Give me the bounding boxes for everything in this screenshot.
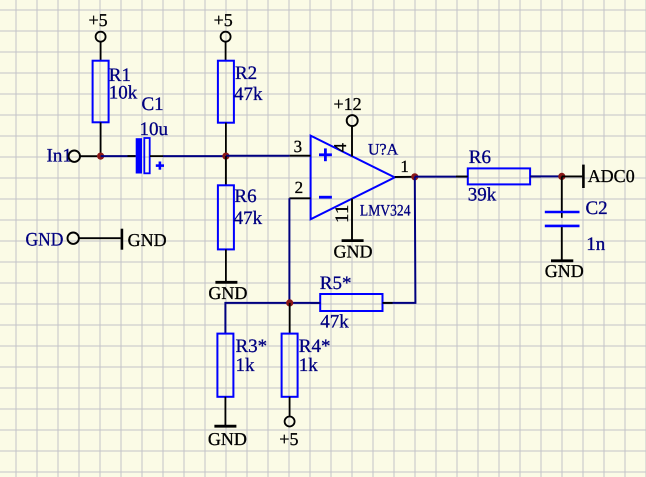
resistor R3* xyxy=(217,334,233,426)
capacitor C1 10u xyxy=(128,138,165,174)
svg-text:ADC0: ADC0 xyxy=(588,166,635,186)
svg-text:1: 1 xyxy=(400,157,409,176)
svg-text:R2: R2 xyxy=(235,63,257,84)
power +5 (R4 supply) xyxy=(279,417,298,449)
junction (output node) xyxy=(411,173,418,180)
resistor R6 (47k) xyxy=(218,156,234,281)
wire (C1 to R2 node) xyxy=(163,155,226,157)
power +5 (R1 supply) xyxy=(89,10,108,61)
pin 3 (non-inverting) xyxy=(290,137,311,156)
junction (ADC node) xyxy=(558,173,565,180)
svg-text:1k: 1k xyxy=(299,355,319,376)
svg-text:GND: GND xyxy=(208,283,247,303)
pin 2 (inverting) xyxy=(289,178,310,199)
svg-text:+5: +5 xyxy=(89,10,108,30)
wire (pin 2 to inverting node) xyxy=(288,198,290,303)
resistor R5* xyxy=(310,294,392,311)
power GND (bar, left) xyxy=(122,229,167,250)
svg-text:GND: GND xyxy=(26,230,64,251)
ground (under C2) xyxy=(545,261,584,281)
wire (node to C1) xyxy=(101,155,136,157)
wire (R6 to ADC node) xyxy=(530,175,562,177)
resistor R6 (39k) xyxy=(456,168,541,184)
svg-text:GND: GND xyxy=(545,261,584,281)
resistor R4* xyxy=(282,303,298,416)
svg-text:C1: C1 xyxy=(142,94,164,115)
pin 11 (V-) xyxy=(332,199,353,240)
svg-text:11: 11 xyxy=(332,205,353,223)
svg-text:C2: C2 xyxy=(586,198,608,219)
svg-text:47k: 47k xyxy=(234,208,263,229)
port GND circle xyxy=(68,233,121,244)
svg-text:10k: 10k xyxy=(109,83,138,104)
op-amp U?A LMV324 xyxy=(311,136,395,220)
port In1 xyxy=(47,146,98,167)
svg-text:GND: GND xyxy=(128,230,167,250)
wire (R5 to inverting node and R3) xyxy=(225,303,320,334)
svg-text:1k: 1k xyxy=(236,355,256,376)
junction (R2/C1/R6) xyxy=(222,153,229,160)
svg-text:10u: 10u xyxy=(140,119,169,140)
svg-text:3: 3 xyxy=(294,137,303,156)
resistor R1 xyxy=(93,61,109,156)
svg-text:2: 2 xyxy=(295,178,304,197)
svg-text:+5: +5 xyxy=(214,10,233,30)
svg-text:U?A: U?A xyxy=(368,142,399,159)
svg-text:4: 4 xyxy=(330,143,350,152)
pin 4 (V+) xyxy=(330,126,352,156)
power +12 xyxy=(334,94,362,126)
svg-text:1n: 1n xyxy=(586,234,606,255)
capacitor C2 1n xyxy=(545,176,580,259)
svg-text:GND: GND xyxy=(208,429,247,449)
wire (feedback: output down to R5) xyxy=(383,177,416,303)
svg-text:+12: +12 xyxy=(334,94,362,114)
resistor R2 xyxy=(218,61,234,156)
svg-text:47k: 47k xyxy=(320,311,349,332)
junction (inverting node) xyxy=(286,299,293,306)
ground (op-amp V-) xyxy=(334,241,373,262)
svg-text:39k: 39k xyxy=(468,185,497,206)
svg-text:R6: R6 xyxy=(234,186,256,207)
svg-text:GND: GND xyxy=(334,241,373,261)
svg-text:R5*: R5* xyxy=(320,273,352,294)
svg-text:47k: 47k xyxy=(234,84,263,105)
svg-text:R6: R6 xyxy=(469,147,491,168)
ground (under R3*) xyxy=(208,426,247,449)
svg-text:LMV324: LMV324 xyxy=(360,202,411,219)
wire (output to R6 39k) xyxy=(415,176,468,178)
ground (under R6) xyxy=(208,282,247,303)
wire (node to pin 3) xyxy=(226,155,290,157)
pin 1 (output) xyxy=(395,157,415,177)
power +5 (R2 supply) xyxy=(214,10,233,61)
junction (In1/R1) xyxy=(97,153,104,160)
port ADC0 xyxy=(562,165,635,188)
svg-text:+5: +5 xyxy=(279,429,298,449)
